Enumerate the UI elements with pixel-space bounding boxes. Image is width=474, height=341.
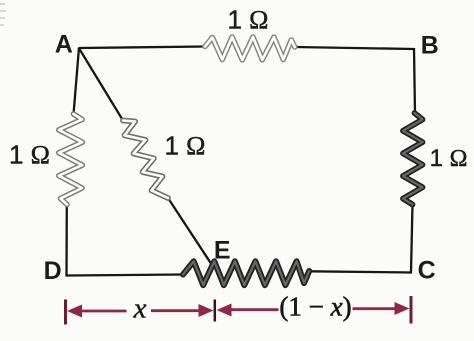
wire top resistor to B — [295, 47, 414, 49]
dimension line (1-x) right part — [353, 307, 398, 310]
wire left resistor down to D — [65, 204, 68, 277]
svg-text:1 Ω: 1 Ω — [430, 145, 468, 172]
scan artifact marks left edge — [0, 4, 6, 25]
dimension arrow left (points left to D tick) — [67, 305, 82, 318]
svg-text:A: A — [55, 31, 73, 59]
dimension tick at D — [64, 300, 67, 325]
dimension arrow right (points right to C tick) — [395, 302, 410, 315]
wire B down to right resistor — [414, 48, 415, 114]
svg-text:1 Ω: 1 Ω — [227, 5, 268, 35]
svg-text:x: x — [133, 293, 147, 325]
svg-text:B: B — [421, 32, 439, 60]
wire diagonal resistor to node E — [168, 198, 211, 264]
svg-text:1 Ω: 1 Ω — [164, 131, 205, 161]
svg-text:E: E — [214, 237, 231, 265]
resistor R3 (diagonal A-E, 1 ohm, light ribbon zigzag) — [123, 121, 168, 199]
svg-text:D: D — [44, 257, 62, 285]
resistor R4 (right, 1 ohm, dark zigzag) — [403, 113, 423, 205]
dimension tick at C — [410, 296, 413, 324]
wire A to top resistor — [79, 47, 206, 49]
wire A down to left resistor — [74, 48, 80, 115]
resistor R5 (bottom D-C between E and C, dark zigzag) — [183, 261, 309, 285]
resistor R1 (top, 1 ohm, light ribbon zigzag) — [205, 37, 295, 60]
svg-text:C: C — [418, 257, 436, 285]
dimension arrow left (points left to E tick) — [217, 304, 232, 317]
dimension line x (left part) — [80, 310, 127, 313]
svg-text:1 Ω: 1 Ω — [9, 140, 50, 170]
dimension line (1-x) left part — [229, 308, 279, 311]
wire right resistor down to C — [411, 204, 413, 273]
dimension arrow right (points right to E tick) — [199, 304, 214, 317]
dimension line x (right part) — [151, 309, 201, 312]
wire A to diagonal resistor — [79, 48, 124, 121]
wire C to bottom resistor — [309, 271, 412, 272]
dimension tick at E — [214, 300, 217, 322]
wire D to bottom resistor — [66, 275, 184, 276]
resistor R2 (left, 1 ohm, light ribbon zigzag) — [59, 114, 83, 205]
svg-text:(1 − x): (1 − x) — [279, 292, 351, 322]
